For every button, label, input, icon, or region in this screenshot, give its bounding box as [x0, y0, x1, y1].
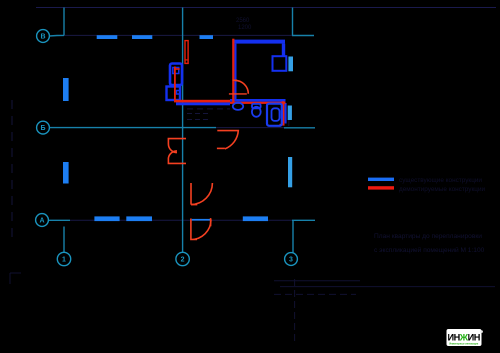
svg-text:План квартиры до перепланировк: План квартиры до перепланировки	[374, 233, 482, 240]
svg-text:ИНЖИН: ИНЖИН	[448, 333, 481, 343]
svg-text:существующие конструкции: существующие конструкции	[399, 177, 482, 184]
svg-text:В: В	[40, 34, 45, 41]
svg-text:1: 1	[62, 257, 66, 264]
svg-text:3: 3	[289, 257, 293, 264]
svg-text:2: 2	[181, 257, 185, 264]
svg-text:Инженерные инновации: Инженерные инновации	[449, 342, 478, 345]
svg-text:с экспликацией помещений М 1:1: с экспликацией помещений М 1:100	[374, 246, 485, 254]
svg-text:1200: 1200	[238, 25, 252, 31]
svg-text:Б: Б	[40, 125, 45, 132]
svg-text:демонтируемые конструкции: демонтируемые конструкции	[399, 186, 486, 193]
svg-text:А: А	[39, 218, 44, 225]
svg-text:2560: 2560	[236, 18, 250, 24]
